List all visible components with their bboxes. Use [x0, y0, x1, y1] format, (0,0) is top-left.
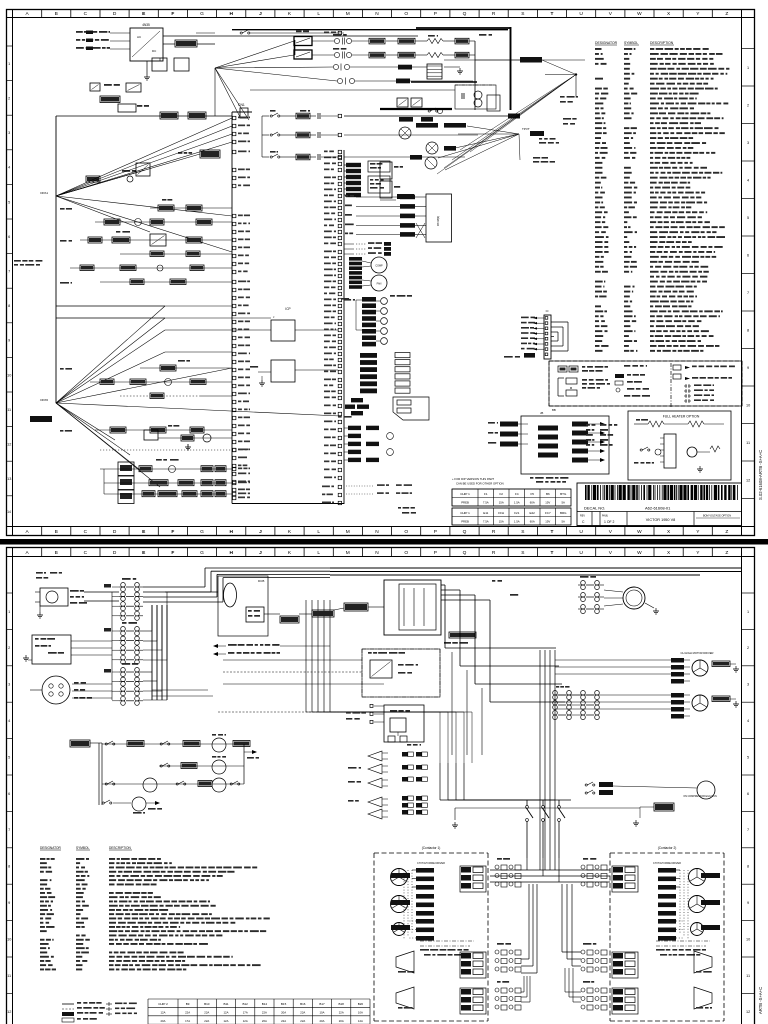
on off switch: [344, 603, 368, 611]
comp chain: [416, 123, 438, 128]
bp box 1: [271, 320, 295, 341]
connector CN1 right pins: [338, 150, 341, 153]
svg-text:DESIGNATOR: DESIGNATOR: [595, 41, 618, 45]
wire bus: [55, 196, 57, 403]
svg-text:F4: F4: [515, 492, 519, 496]
svg-text:11: 11: [7, 974, 11, 978]
wire: [455, 807, 640, 809]
svg-text:22A: 22A: [281, 1019, 286, 1023]
svg-text:E22: E22: [530, 511, 536, 515]
svg-text:DECAL NO.: DECAL NO.: [584, 506, 605, 511]
capacitor C1: [152, 58, 167, 71]
svg-text:BOM VOLTAGE OPTION: BOM VOLTAGE OPTION: [703, 515, 731, 518]
svg-text:5: 5: [8, 200, 10, 204]
mid column lower rows: [344, 427, 348, 429]
svg-text:5A: 5A: [561, 501, 565, 505]
svg-text:G: G: [200, 11, 204, 17]
svg-text:J: J: [273, 315, 275, 319]
fbb boxes: [380, 162, 392, 179]
heater contact: [640, 449, 642, 451]
contactor right arrow pill 2: [701, 900, 720, 905]
filter wire: [444, 59, 585, 61]
svg-text:BRG: BRG: [560, 511, 567, 515]
contactor right connector stack CN: [612, 866, 638, 892]
dotted row y450: [100, 449, 232, 451]
svg-text:K: K: [288, 11, 292, 17]
row extensions right: [344, 115, 508, 117]
svg-text:14: 14: [7, 510, 11, 514]
row3 pill: [398, 65, 412, 70]
contactor right lower connector A: [612, 952, 638, 978]
svg-text:7.5A: 7.5A: [483, 501, 489, 505]
bottom dotted leaders: [346, 485, 374, 487]
svg-text:13: 13: [7, 477, 11, 481]
parts list sheet2: [40, 858, 45, 860]
svg-text:1: 1: [747, 66, 749, 70]
no-nc note: [218, 645, 226, 647]
comparator U2: [368, 161, 390, 172]
svg-text:3: 3: [8, 683, 10, 687]
svg-text:B: B: [55, 11, 58, 17]
contactor right lower connector B: [612, 988, 638, 1014]
svg-text:B12: B12: [243, 1002, 249, 1006]
resistor R3: [118, 104, 136, 112]
svg-text:17A: 17A: [243, 1010, 248, 1014]
contactor dashed box left: [374, 852, 488, 854]
plug labels: [36, 572, 43, 574]
svg-text:R: R: [492, 550, 496, 556]
transformer left stubs: [112, 586, 119, 588]
wire staircase right: [441, 584, 445, 586]
contactor left connector stack CN: [460, 866, 486, 892]
right small texts: [560, 96, 565, 98]
crossover wires: [416, 223, 425, 238]
svg-text:V: V: [609, 550, 613, 556]
svg-text:22A: 22A: [185, 1010, 190, 1014]
capacitor C2: [174, 58, 189, 71]
svg-text:10: 10: [746, 937, 750, 941]
svg-text:F: F: [171, 529, 174, 535]
wire risers: [143, 630, 152, 632]
heater option box: [628, 411, 731, 480]
contactor left dotted spare: [416, 919, 434, 924]
svg-text:7.5A: 7.5A: [483, 520, 489, 524]
svg-text:R: R: [492, 529, 496, 535]
stack2 pills with lamps: [362, 297, 376, 302]
svg-text:L: L: [317, 529, 320, 535]
svg-text:F21: F21: [514, 511, 520, 515]
svg-text:H: H: [229, 11, 233, 17]
svg-text:12: 12: [7, 443, 11, 447]
svg-text:1: 1: [747, 610, 749, 614]
svg-text:B10: B10: [204, 1002, 210, 1006]
tb voltage note: [390, 295, 395, 297]
svg-text:9: 9: [8, 901, 10, 905]
contact row 1: [270, 115, 272, 117]
wire: [84, 591, 119, 593]
ladder rung 3: [102, 783, 244, 785]
svg-text:PA(II): PA(II): [602, 515, 608, 518]
svg-text:FULL HEATER OPTION: FULL HEATER OPTION: [663, 415, 700, 419]
svg-text:BB: BB: [552, 408, 556, 412]
tb pins: [374, 705, 384, 707]
svg-text:1: 1: [8, 62, 10, 66]
thick bus 2: [380, 108, 452, 110]
svg-text:E: E: [142, 11, 146, 17]
wire main bus: [330, 567, 741, 569]
cable pairs right: [583, 858, 588, 860]
table T2: [452, 508, 571, 525]
wire drop lowest stacks right: [564, 968, 566, 992]
svg-text:20A: 20A: [339, 1019, 344, 1023]
ladder rung 2: [159, 765, 244, 767]
breaker row: [196, 32, 215, 34]
svg-text:2: 2: [747, 103, 749, 107]
svg-text:X: X: [667, 11, 671, 17]
wire turns: [445, 647, 556, 649]
sheet 1 border frame: [7, 10, 755, 536]
spare relay row 1: [368, 751, 382, 761]
ch high motor driver 2: [671, 693, 684, 698]
svg-text:22A: 22A: [262, 1010, 267, 1014]
amplifier label: [30, 416, 52, 422]
svg-text:FAN: FAN: [377, 283, 382, 286]
transistor Q2: [426, 142, 438, 154]
svg-text:VICTOR 1950 V8: VICTOR 1950 V8: [646, 518, 675, 522]
svg-text:CHIP 1: CHIP 1: [460, 492, 470, 496]
row2 resistor: [427, 53, 443, 58]
contactor right fan motor 1: [689, 869, 706, 886]
wire: [56, 115, 232, 117]
group label pills: [104, 584, 111, 588]
pilot contact: [428, 110, 430, 112]
tiny left labels: [60, 208, 65, 210]
wire: [163, 43, 175, 45]
svg-text:15A: 15A: [499, 520, 504, 524]
svg-text:A62-61608-01: A62-61608-01: [645, 506, 671, 511]
svg-text:4: 4: [747, 719, 749, 723]
svg-text:O: O: [404, 529, 408, 535]
svg-text:COMP: COMP: [375, 265, 383, 268]
note under box: [530, 477, 533, 479]
svg-text:FFH: FFH: [498, 511, 504, 515]
svg-text:22A: 22A: [204, 1019, 209, 1023]
ladder feed: [70, 740, 90, 747]
small box right: [487, 95, 500, 111]
svg-text:B: B: [55, 529, 58, 535]
legend item connector pair: [558, 366, 567, 372]
svg-text:F: F: [171, 550, 174, 556]
sheet 2 left row numbers: [6, 592, 13, 594]
sheet 1 left row numbers: [6, 45, 13, 47]
svg-text:2: 2: [8, 646, 10, 650]
svg-text:7: 7: [8, 270, 10, 274]
bottom right pins of CN1: [338, 485, 341, 488]
wire feed bundle: [555, 648, 557, 775]
control box outputs: [572, 422, 588, 427]
rectifier boxes: [397, 98, 408, 107]
sensor box: [393, 397, 429, 420]
chain y222: [95, 221, 232, 223]
svg-text:DESIGNATOR: DESIGNATOR: [40, 846, 61, 850]
svg-text:A: A: [25, 529, 29, 535]
svg-text:X: X: [667, 550, 671, 556]
resistor R2: [100, 96, 120, 103]
svg-text:1.5A: 1.5A: [514, 520, 520, 524]
svg-text:12A: 12A: [161, 1010, 166, 1014]
svg-text:60A: 60A: [530, 520, 535, 524]
svg-text:22A: 22A: [300, 1010, 305, 1014]
svg-text:60A: 60A: [530, 501, 535, 505]
parts list sheet1: [595, 48, 602, 50]
svg-text:22A: 22A: [204, 1010, 209, 1014]
svg-text:N: N: [375, 529, 379, 535]
header J2 labels: [521, 317, 529, 319]
transformer group T1: [122, 578, 131, 580]
svg-text:B9: B9: [186, 1002, 190, 1006]
vertical feed left: [111, 592, 113, 700]
row2 pills: [369, 52, 385, 58]
contactor left horn A: [396, 951, 414, 973]
wf relay rows: [348, 800, 354, 802]
svg-text:A: A: [25, 550, 29, 556]
svg-text:AC: AC: [137, 35, 142, 39]
compressor pills: [349, 257, 362, 261]
svg-text:S: S: [521, 550, 524, 556]
svg-text:Z: Z: [725, 550, 728, 556]
relay box ZH: [654, 803, 674, 811]
svg-text:17A: 17A: [185, 1019, 190, 1023]
diode D1: [90, 83, 100, 91]
cable harness W1: [218, 576, 268, 636]
svg-text:S.02-61608-ARTB -S+A+C: S.02-61608-ARTB -S+A+C: [758, 450, 763, 500]
svg-text:G: G: [200, 550, 204, 556]
vertical bundle: [151, 605, 153, 700]
relay K1: [126, 83, 141, 92]
contactor right fan motor 2: [689, 896, 706, 913]
svg-text:9: 9: [747, 901, 749, 905]
svg-text:B17: B17: [319, 1002, 325, 1006]
svg-text:8: 8: [8, 865, 10, 869]
svg-text:3: 3: [747, 141, 749, 145]
parts list overflow rows: [586, 424, 590, 426]
svg-text:P: P: [434, 550, 437, 556]
svg-text:DPA1: DPA1: [40, 191, 48, 195]
svg-text:5A: 5A: [561, 520, 565, 524]
contactor left lower connector B: [460, 988, 486, 1014]
svg-text:22A: 22A: [339, 1010, 344, 1014]
ground: [146, 61, 148, 74]
svg-text:12A: 12A: [224, 1010, 229, 1014]
svg-text:6: 6: [747, 253, 749, 257]
option links: [344, 243, 354, 245]
chain y208: [150, 207, 232, 209]
svg-text:O: O: [404, 550, 408, 556]
svg-text:B11: B11: [223, 1002, 228, 1006]
svg-text:10A: 10A: [358, 1010, 363, 1014]
relay K2: [136, 163, 150, 176]
svg-text:M: M: [346, 550, 350, 556]
svg-text:SYMBOL: SYMBOL: [76, 846, 90, 850]
svg-text:B14: B14: [262, 1002, 268, 1006]
contactor left dotted verticals: [411, 870, 413, 933]
svg-text:20A: 20A: [320, 1019, 325, 1023]
header J2 brackets: [551, 321, 568, 323]
lwave pill: [520, 57, 542, 63]
chain y438: [144, 430, 158, 440]
contactor left signal pills: [416, 868, 434, 873]
svg-text:CH HIGH WIRE DRIVER: CH HIGH WIRE DRIVER: [417, 862, 445, 865]
comp label: [397, 194, 414, 199]
fan M2: [371, 275, 387, 291]
svg-text:L: L: [317, 550, 320, 556]
gun transformer pairs: [553, 691, 558, 696]
svg-text:4: 4: [747, 178, 749, 182]
svg-text:J: J: [259, 529, 262, 535]
chain row A: [104, 468, 232, 470]
wire: [55, 116, 57, 196]
svg-text:J: J: [259, 550, 262, 556]
sheet 1 right row numbers: [742, 48, 755, 50]
wire drop lower stacks right: [561, 884, 563, 952]
svg-text:7: 7: [8, 828, 10, 832]
svg-text:K: K: [288, 529, 292, 535]
fan transformer T4: [581, 581, 586, 586]
svg-text:10: 10: [7, 937, 11, 941]
switch contacts triple: [526, 800, 528, 806]
wire drop lower stacks left: [528, 884, 530, 959]
svg-text:P: P: [434, 11, 437, 17]
svg-text:7: 7: [747, 828, 749, 832]
svg-text:DCB: DCB: [258, 579, 264, 583]
svg-text:7: 7: [747, 291, 749, 295]
svg-text:12A: 12A: [243, 1019, 248, 1023]
sheet 1 bottom letter strip: [12, 527, 14, 536]
contactor dashed box right: [610, 852, 724, 854]
stack3 pills with outline pills: [360, 353, 377, 358]
table T3: [148, 998, 370, 1000]
fuse F2: [188, 112, 206, 119]
svg-text:8: 8: [747, 328, 749, 332]
svg-text:F: F: [171, 11, 174, 17]
ladder right rail: [243, 744, 245, 784]
svg-text:F5: F5: [530, 492, 534, 496]
riser links: [152, 604, 185, 606]
fuse F1: [160, 112, 178, 119]
row2 cap circles: [334, 52, 339, 57]
remote box: [384, 705, 424, 742]
title block cells: [577, 511, 742, 513]
svg-text:B: B: [55, 550, 58, 556]
chain y282: [100, 281, 232, 283]
svg-text:W: W: [637, 550, 642, 556]
chain row B: [104, 482, 232, 484]
ladder rung 4: [102, 802, 104, 804]
contact row 3: [270, 156, 272, 158]
mains plug P1: [40, 588, 68, 606]
left feed lines: [103, 469, 105, 494]
control box U5: [521, 416, 609, 474]
grid boxes: [118, 462, 134, 476]
svg-text:10A: 10A: [320, 1010, 325, 1014]
round connector P2: [42, 676, 70, 704]
svg-text:N: N: [375, 11, 379, 17]
relay stack RL1: [585, 784, 587, 786]
transformer group T2: [122, 622, 127, 624]
rc filter: [449, 632, 476, 638]
resistor R1: [175, 40, 197, 47]
legend item bracket pair: [557, 378, 559, 396]
svg-text:K: K: [288, 550, 292, 556]
svg-text:D: D: [113, 529, 117, 535]
svg-text:PREB: PREB: [461, 501, 469, 505]
svg-text:8: 8: [747, 865, 749, 869]
svg-text:P: P: [434, 529, 437, 535]
svg-text:M: M: [346, 529, 350, 535]
transformer group T3: [122, 663, 130, 665]
row4 pill: [396, 79, 410, 84]
svg-text:d5: d5: [540, 411, 544, 415]
svg-text:CH HIGH MOTOR DRIVER: CH HIGH MOTOR DRIVER: [681, 651, 714, 655]
contactor left signal pills 2: [416, 894, 434, 899]
contactor right arrow pill 1: [701, 873, 720, 878]
svg-text:4: 4: [8, 719, 10, 723]
signal labels group 1: [344, 164, 346, 166]
svg-text:T: T: [551, 550, 554, 556]
heater motor: [687, 447, 697, 457]
svg-text:CI: CI: [546, 309, 549, 313]
svg-text:ICP: ICP: [285, 307, 290, 311]
bcd switch: [280, 616, 299, 623]
dash-dot filter box: [455, 85, 496, 109]
svg-text:10: 10: [7, 373, 11, 377]
legend right contact rows: [684, 385, 687, 387]
chain row C: [104, 493, 232, 495]
center drop bundle: [305, 600, 307, 712]
svg-text:10: 10: [746, 403, 750, 407]
thick feeder bus: [416, 27, 511, 29]
svg-text:B18: B18: [339, 1002, 345, 1006]
mcb box: [246, 607, 264, 622]
varistor RV1: [86, 176, 100, 182]
contactor left fan motor 2: [391, 896, 408, 913]
svg-text:12A: 12A: [224, 1019, 229, 1023]
bp box 2: [271, 360, 295, 382]
contactor left fan motor 1: [391, 869, 408, 886]
svg-text:S: S: [521, 529, 524, 535]
connector CN1 left pins: [233, 116, 236, 119]
svg-text:+ FOR DIP VERSION THIS PART: + FOR DIP VERSION THIS PART: [452, 477, 494, 481]
legend right items: [673, 365, 681, 370]
svg-text:CHIP 2: CHIP 2: [158, 1002, 168, 1006]
note text: [14, 260, 21, 262]
svg-text:9: 9: [8, 339, 10, 343]
svg-text:4: 4: [8, 166, 10, 170]
svg-text:E: E: [142, 529, 146, 535]
display rows: [345, 195, 348, 197]
row1 cap circles: [334, 38, 339, 43]
svg-text:L: L: [317, 11, 320, 17]
svg-text:5: 5: [747, 216, 749, 220]
svg-text:2: 2: [747, 646, 749, 650]
spare relay row 3: [348, 781, 355, 783]
svg-text:Z: Z: [725, 529, 728, 535]
svg-text:BTG: BTG: [560, 492, 567, 496]
transistor Q1: [399, 127, 411, 139]
lamp labels: [156, 459, 162, 461]
svg-text:4N35: 4N35: [142, 23, 150, 27]
svg-text:B20: B20: [358, 1002, 364, 1006]
